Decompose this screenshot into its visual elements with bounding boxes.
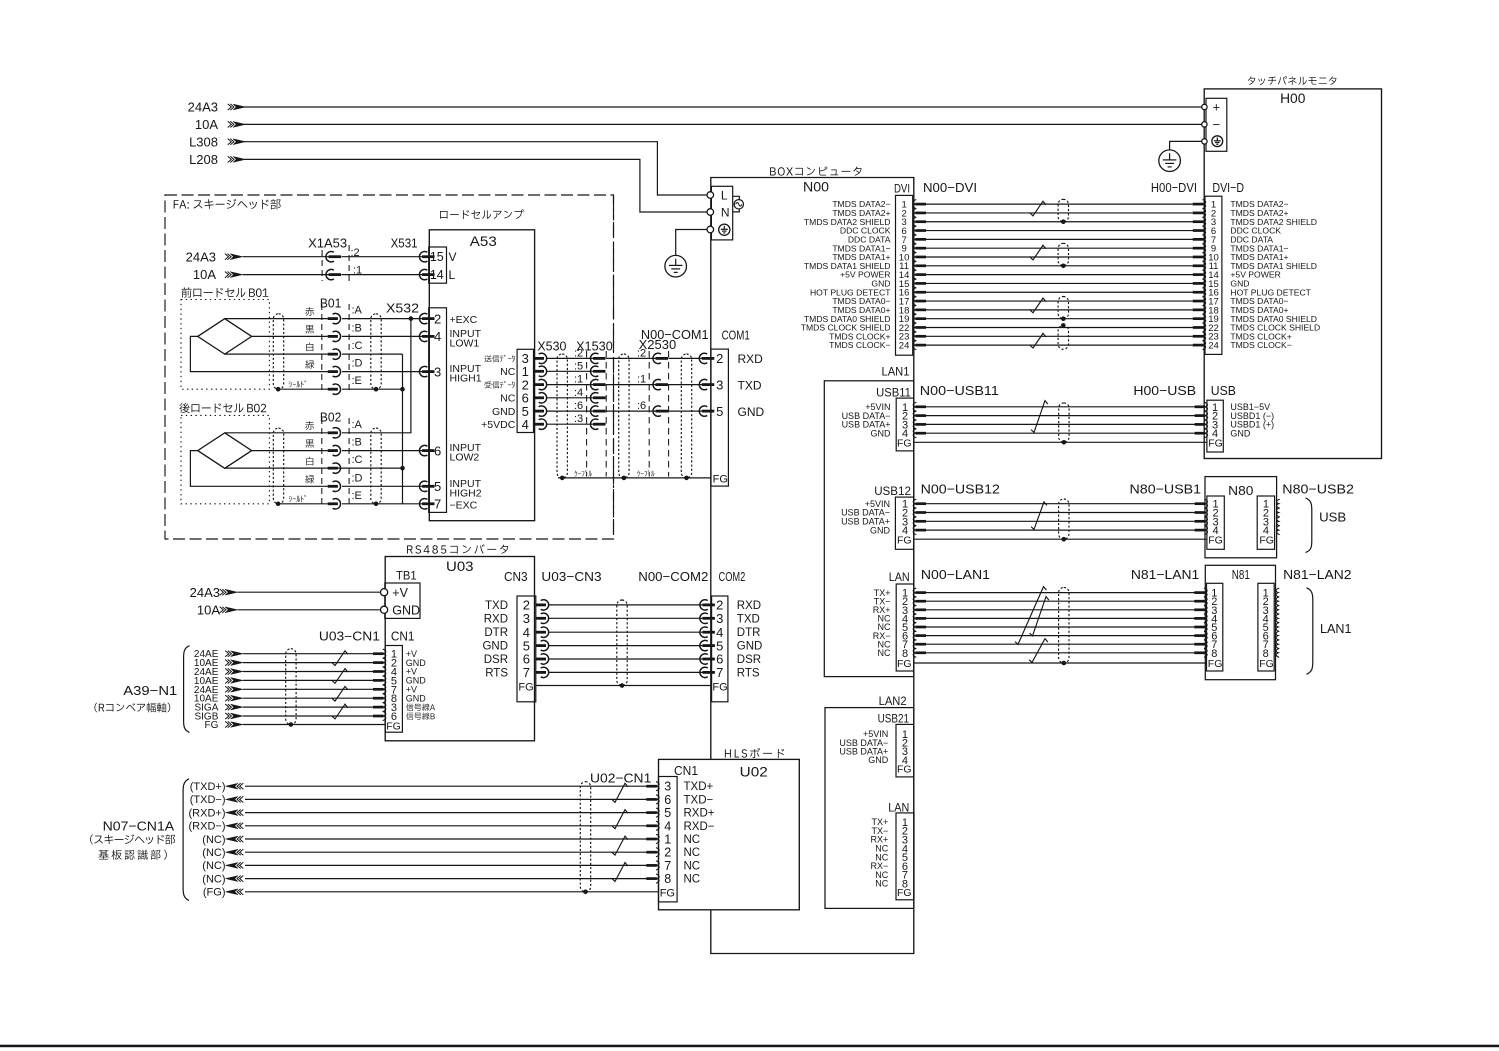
cable FG drain wire [558, 477, 711, 479]
connector USB box on H00 [1207, 400, 1223, 452]
connector X532 pins (left of A53) [419, 313, 427, 323]
wire B01 white [225, 353, 328, 355]
svg-text:N07−CN1A: N07−CN1A [103, 818, 175, 833]
svg-text:5: 5 [434, 479, 441, 494]
svg-text:TXD+: TXD+ [684, 781, 714, 793]
svg-text:+V: +V [392, 586, 408, 600]
svg-text::6: :6 [574, 400, 583, 412]
connector N81-LAN1 box [1207, 583, 1223, 671]
svg-text:(FG): (FG) [203, 887, 226, 899]
svg-text:GND: GND [871, 428, 892, 438]
svg-text:TMDS CLOCK−: TMDS CLOCK− [1230, 340, 1291, 350]
svg-text:+5VDC: +5VDC [481, 419, 516, 431]
touch panel monitor heading [1248, 76, 1255, 84]
FA enclosure boundary (dashed) [165, 195, 614, 539]
CN3 pins [536, 604, 546, 607]
wire B02 green [190, 451, 327, 487]
connector X1A53 pin :2 [326, 252, 334, 262]
svg-text:5: 5 [664, 806, 671, 820]
svg-text:DTR: DTR [737, 627, 761, 639]
wire color labels B01 [305, 307, 314, 316]
svg-text:X532: X532 [386, 301, 419, 316]
CN3 FG wire [536, 685, 712, 687]
connector DVI-D box on H00 [1205, 196, 1222, 354]
svg-text:2: 2 [716, 351, 723, 366]
cable shield X530 cable [557, 354, 567, 478]
connector USB11 box [896, 398, 914, 451]
CN1 (U03) pins [383, 649, 386, 658]
svg-text:(NC): (NC) [202, 847, 225, 859]
svg-text:FG: FG [897, 764, 912, 776]
svg-text::1: :1 [574, 374, 583, 386]
CN1 (U02) pins [656, 782, 659, 791]
svg-text::2: :2 [637, 347, 646, 359]
svg-text:N80−USB1: N80−USB1 [1130, 482, 1202, 497]
svg-text:X531: X531 [391, 236, 418, 251]
svg-text:TXD: TXD [738, 378, 762, 392]
load cell B02 enclosure (dotted) [181, 415, 269, 503]
signal arrow 10A [230, 272, 243, 278]
wire color labels B02 [305, 421, 314, 430]
BOX computer heading [770, 167, 776, 175]
N07-CN1A sublabel line1 [90, 834, 93, 844]
computer N00 box [711, 178, 914, 954]
converter U03 box [385, 557, 534, 741]
svg-text:DSR: DSR [737, 654, 761, 666]
wire B02 shield [278, 503, 328, 505]
board U02 box [659, 759, 800, 909]
svg-text:LAN1: LAN1 [882, 364, 910, 378]
svg-text:LOW1: LOW1 [450, 337, 480, 349]
svg-text:L: L [449, 268, 456, 282]
svg-text::4: :4 [574, 387, 583, 399]
cable U03-CN3 wires [549, 605, 704, 673]
junction +EXC net [409, 316, 414, 321]
svg-text:USB12: USB12 [874, 484, 911, 498]
svg-text:GND: GND [482, 641, 508, 653]
svg-text:N81: N81 [1232, 567, 1250, 582]
load cell B01 enclosure (dotted) [181, 300, 269, 390]
svg-text::1: :1 [637, 374, 646, 386]
svg-text::A: :A [352, 419, 363, 431]
svg-text:24: 24 [899, 341, 910, 352]
svg-text:A39−N1: A39−N1 [123, 683, 177, 698]
svg-text:RXD−: RXD− [684, 821, 715, 833]
svg-text:LAN1: LAN1 [1320, 621, 1352, 636]
cable N00-DVI wires [926, 204, 1193, 345]
svg-text:FG: FG [897, 887, 912, 899]
svg-text:B01: B01 [320, 295, 341, 310]
connector B01 pins :A-:E [328, 317, 338, 320]
svg-text:7: 7 [716, 665, 723, 680]
connector X531 box [429, 247, 447, 283]
svg-text:U03−CN1: U03−CN1 [319, 630, 380, 644]
svg-text:14: 14 [430, 268, 444, 282]
svg-text:DTR: DTR [484, 627, 508, 639]
earth ground symbol (H00) [1159, 150, 1181, 172]
wire PE to earth [676, 230, 707, 256]
cable shield X1530-X2530 cable [619, 354, 629, 478]
svg-text:RTS: RTS [737, 667, 760, 679]
svg-text:1: 1 [664, 833, 671, 847]
connector X530 pins [534, 357, 544, 360]
cable N00-USB11 wires [926, 407, 1195, 433]
U02 twisted pair marks [612, 783, 628, 802]
connector X2530 pins [653, 353, 661, 363]
svg-text:FG: FG [897, 534, 912, 546]
U02 cable shield [580, 782, 590, 892]
svg-text:FG: FG [897, 658, 912, 670]
connector USB12 box [895, 497, 913, 549]
svg-text:3: 3 [716, 377, 723, 392]
svg-text:N00−COM2: N00−COM2 [638, 569, 708, 584]
connector X532 box [429, 308, 447, 513]
svg-text::E: :E [352, 490, 362, 502]
USB2 brace [1306, 498, 1312, 553]
svg-text:U03−CN3: U03−CN3 [541, 569, 601, 584]
svg-text:TMDS CLOCK−: TMDS CLOCK− [829, 340, 890, 350]
svg-text:COM1: COM1 [722, 328, 750, 343]
FA boundary chain line [613, 195, 615, 539]
USB12 FG wire [914, 538, 1207, 540]
svg-text:N00−USB12: N00−USB12 [921, 482, 1000, 497]
svg-text:LAN: LAN [888, 800, 909, 814]
svg-text:(RXD+): (RXD+) [189, 807, 226, 819]
connector X1A53 boundary [321, 250, 323, 281]
load cell B01 bridge [198, 319, 252, 355]
svg-text::A: :A [352, 305, 363, 317]
svg-text:3: 3 [434, 364, 441, 379]
terminal PE [707, 226, 714, 233]
USB1 pins on N80 [1204, 499, 1207, 508]
cable shield B01-cable [273, 314, 283, 389]
amplifier A53 box [429, 230, 534, 521]
svg-text:GND: GND [406, 693, 427, 703]
svg-text:3: 3 [664, 780, 671, 794]
N07-CN1A bracket [183, 779, 189, 901]
svg-text:N81−LAN2: N81−LAN2 [1283, 567, 1351, 582]
svg-text:−EXC: −EXC [450, 499, 478, 511]
svg-text:CN3: CN3 [504, 569, 528, 584]
X530 pin function labels [484, 355, 491, 362]
svg-text:24: 24 [1208, 341, 1219, 352]
svg-text:CN1: CN1 [391, 630, 415, 644]
signal arrow 24A3 [233, 104, 246, 110]
signal arrow 10A U03 [225, 607, 238, 613]
wire B02 black [252, 450, 328, 452]
svg-text:+: + [1213, 100, 1221, 115]
svg-text:N: N [721, 206, 730, 220]
COM1 side connector pins [699, 353, 707, 363]
USB12 cable shield [1059, 499, 1069, 539]
svg-text:U02−CN1: U02−CN1 [590, 771, 651, 786]
connector X531 pin 14 [419, 269, 427, 279]
N00 mains terminal box [711, 186, 732, 240]
svg-text:(NC): (NC) [202, 860, 225, 872]
svg-text::B: :B [352, 322, 362, 334]
svg-text:LOW2: LOW2 [450, 452, 480, 464]
svg-text:(TXD+): (TXD+) [190, 781, 226, 793]
wire 10A to TB1 GND [238, 609, 381, 611]
USB pins on H00 [1204, 402, 1207, 411]
svg-text:2: 2 [664, 846, 671, 860]
hub N80 box [1205, 477, 1277, 558]
LAN1 brace [1307, 588, 1313, 675]
svg-text:N80−USB2: N80−USB2 [1282, 482, 1354, 497]
svg-text:USB: USB [1211, 383, 1236, 398]
svg-text:24A3: 24A3 [188, 100, 218, 115]
cable N00-LAN1 wires [926, 593, 1195, 653]
svg-text:N00−COM1: N00−COM1 [641, 327, 709, 342]
svg-text:8: 8 [664, 872, 671, 886]
H00 power terminal box [1206, 98, 1227, 151]
svg-text:L308: L308 [189, 134, 218, 149]
svg-text:FG: FG [712, 681, 727, 693]
svg-text:RXD: RXD [484, 613, 508, 625]
terminal +V [381, 589, 388, 596]
load cell B02 heading [179, 403, 189, 413]
wire X1A53:2 to X531-15 [341, 256, 424, 258]
wires B01 to X532 [342, 318, 424, 320]
svg-text:USB21: USB21 [878, 711, 910, 725]
svg-text:N00−LAN1: N00−LAN1 [921, 567, 990, 582]
cable sheath labels [574, 471, 577, 477]
svg-text:10A: 10A [193, 267, 216, 282]
svg-text:GND: GND [492, 406, 516, 418]
connector LAN box [896, 584, 914, 671]
svg-text:N00: N00 [803, 180, 829, 195]
interface board LAN1 box [824, 381, 914, 677]
LAN1 FG wire [914, 662, 1207, 664]
svg-text:6: 6 [664, 793, 671, 807]
svg-text:B02: B02 [320, 409, 341, 424]
interface board LAN2 box [825, 708, 914, 909]
svg-text:N00−USB11: N00−USB11 [920, 383, 999, 398]
A39 twisted pair marks [332, 651, 348, 666]
terminal GND [381, 606, 388, 613]
converter N81 box [1205, 565, 1275, 679]
COM2-side pins [700, 600, 708, 610]
svg-text:N00−DVI: N00−DVI [923, 180, 977, 195]
svg-text:FG: FG [1208, 437, 1223, 449]
connector DVI box on N00 [896, 195, 913, 355]
connector USB21 box [896, 724, 914, 777]
A39-N1 arrows [231, 651, 244, 657]
svg-text:COM2: COM2 [719, 569, 746, 584]
svg-text:NC: NC [684, 847, 701, 859]
svg-text::2: :2 [574, 347, 583, 359]
svg-text:FG: FG [386, 721, 401, 733]
svg-text:FG: FG [713, 473, 728, 485]
wire B01 black [252, 335, 328, 337]
LAN1 pins on N81 [1204, 588, 1207, 597]
svg-text::3: :3 [574, 413, 583, 425]
wire 24A3 to TB1 +V [238, 591, 381, 593]
svg-text:TXD−: TXD− [684, 794, 714, 806]
wire B01 green [190, 336, 327, 371]
svg-text:FG: FG [897, 437, 912, 449]
terminal PE (H00) [1202, 139, 1207, 144]
svg-text:LAN2: LAN2 [879, 694, 907, 708]
connector B02 pins :A-:E [328, 431, 338, 434]
svg-text::6: :6 [637, 400, 646, 412]
svg-text:FG: FG [1259, 534, 1274, 546]
svg-text:A53: A53 [470, 234, 497, 249]
wire H00 PE to earth [1170, 141, 1202, 150]
svg-text:5: 5 [716, 404, 723, 419]
terminal block TB1 box [385, 583, 420, 618]
svg-text:GND: GND [870, 525, 891, 535]
connector N80-USB2 box [1257, 496, 1274, 549]
wire 24A3 to X1A53:2 [243, 256, 330, 258]
svg-text:L208: L208 [189, 152, 218, 167]
svg-text:FG: FG [1259, 658, 1274, 670]
signal arrow 10A [233, 122, 246, 128]
svg-text::C: :C [352, 454, 363, 466]
connector X530 box (A53 right) [517, 349, 533, 432]
DVI pins on N00 [913, 200, 916, 209]
wire B01 red [225, 318, 328, 320]
wires X1530 to X2530 / NC ends [606, 357, 657, 359]
A39-N1 bracket [184, 646, 190, 733]
connector COM1 box [711, 349, 728, 486]
LAN twisted pair marks [1015, 587, 1046, 645]
svg-text:3: 3 [716, 611, 723, 626]
DVI cable shields [1058, 199, 1068, 221]
svg-text:24A3: 24A3 [190, 585, 220, 600]
LAN cable shield [1059, 587, 1069, 663]
drawing frame bottom border [0, 1045, 1499, 1048]
svg-text:10A: 10A [195, 117, 218, 132]
svg-text:NC: NC [684, 874, 701, 886]
wire -EXC tie net [402, 354, 404, 504]
terminal + [1202, 104, 1207, 109]
DVI twisted pair marks [1030, 201, 1046, 216]
svg-text:FG: FG [205, 720, 219, 731]
svg-text:L: L [721, 189, 728, 203]
svg-text:USB: USB [1319, 509, 1346, 524]
svg-text:TB1: TB1 [396, 569, 417, 583]
svg-text:+EXC: +EXC [450, 314, 478, 326]
svg-text:GND: GND [1230, 428, 1251, 438]
svg-text:LAN: LAN [889, 570, 910, 584]
load cell B02 bridge [198, 433, 252, 469]
svg-text:GND: GND [738, 405, 765, 419]
terminal N [707, 209, 714, 216]
svg-text:FG: FG [1208, 534, 1223, 546]
connector CN1 (U02) box [659, 777, 678, 902]
terminal L [707, 192, 714, 199]
wire B02 white [225, 467, 403, 469]
N07-CN1A sublabel line2 [98, 850, 108, 860]
svg-text:RXD: RXD [738, 352, 764, 366]
N81-LAN2 pigtail squiggles [1276, 588, 1279, 597]
wire L308 to N00 L [244, 142, 707, 195]
wires B02 to X532 [342, 450, 424, 452]
A39-N1 wires [243, 654, 385, 725]
AC source symbol [733, 196, 740, 199]
USB11 twisted pair mark [1031, 401, 1048, 433]
svg-text:GND: GND [868, 755, 889, 765]
cable boundary dashes X2530 [648, 351, 650, 477]
cable shield B02-cable [273, 428, 283, 504]
svg-text:DSR: DSR [484, 654, 508, 666]
svg-text:USB11: USB11 [876, 386, 911, 400]
svg-text:V: V [449, 250, 457, 264]
svg-text::D: :D [352, 472, 363, 484]
svg-text:2: 2 [434, 311, 441, 326]
N80-USB2 pigtail squiggles [1277, 499, 1280, 508]
wire 24A3 to H00 + [244, 106, 1202, 108]
svg-text:TXD: TXD [485, 600, 508, 612]
wires X2530 to COM1 [669, 357, 704, 359]
RS485 converter heading [407, 545, 413, 553]
svg-text:(NC): (NC) [202, 873, 225, 885]
svg-text::5: :5 [574, 360, 583, 372]
load cell amp heading [440, 211, 447, 219]
svg-text:FG: FG [1208, 658, 1223, 670]
cable shield B02-X532 [371, 428, 381, 504]
svg-text:10A: 10A [197, 602, 220, 617]
connector COM2 box [712, 596, 728, 702]
U03-CN3 cable shield [617, 600, 627, 686]
signal arrow L308 [233, 139, 246, 145]
svg-text:NC: NC [878, 648, 891, 658]
svg-text:7: 7 [434, 497, 441, 512]
svg-text:N80: N80 [1228, 483, 1253, 498]
earth ground symbol [665, 255, 687, 277]
svg-text:TXD: TXD [737, 613, 760, 625]
wire 10A to X1A53:1 [243, 274, 330, 276]
svg-text:GND: GND [392, 603, 420, 617]
USB12 twisted pair mark [1031, 502, 1047, 530]
svg-text:U02: U02 [740, 765, 768, 780]
svg-text:CN1: CN1 [674, 764, 698, 778]
svg-text:X530: X530 [537, 338, 566, 353]
svg-text::D: :D [352, 358, 363, 370]
svg-text::E: :E [352, 375, 362, 387]
svg-text:HIGH2: HIGH2 [450, 487, 482, 499]
HLS board heading [725, 749, 731, 757]
terminal - [1202, 122, 1207, 127]
svg-text:GND: GND [737, 641, 763, 653]
svg-text:(RXD−): (RXD−) [189, 821, 226, 833]
svg-text:4: 4 [522, 417, 529, 432]
connector N81-LAN2 box [1258, 583, 1274, 671]
svg-text:X1A53: X1A53 [308, 236, 347, 251]
wire B02 red [225, 432, 328, 434]
connector X1A53 pin :1 [326, 269, 334, 279]
svg-text:U03: U03 [446, 559, 474, 574]
USB11 pins on N00 [913, 402, 916, 411]
svg-text:RXD+: RXD+ [684, 808, 715, 820]
connector B02 boundary [321, 418, 323, 505]
USB11 cable shield [1059, 403, 1069, 442]
svg-text::B: :B [352, 437, 362, 449]
A39 cable shield [286, 649, 296, 725]
svg-text:NC: NC [875, 879, 888, 889]
svg-text:RXD: RXD [737, 600, 761, 612]
DVI pins on H00 [1203, 200, 1206, 209]
connector X531 pin 15 [419, 252, 427, 262]
USB12 pins on N00 [913, 499, 916, 508]
wire +EXC down to B02 red [342, 319, 411, 433]
cable shield X2530-COM1 cable [681, 354, 691, 478]
svg-text:3: 3 [523, 611, 530, 626]
svg-text:7: 7 [523, 665, 530, 680]
svg-text:H00−USB: H00−USB [1133, 383, 1196, 398]
FA enclosure label [174, 200, 179, 208]
